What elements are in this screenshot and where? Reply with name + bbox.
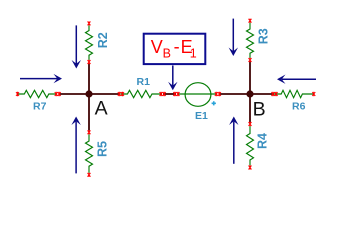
- svg-text:B: B: [253, 98, 266, 120]
- resistor R6: [271, 90, 315, 112]
- current arrow up through R4: [229, 117, 238, 164]
- svg-text:R3: R3: [256, 28, 270, 44]
- node A: [85, 90, 107, 119]
- svg-text:R7: R7: [33, 101, 47, 113]
- resistor R3: [247, 19, 271, 63]
- resistor R4: [247, 122, 270, 170]
- voltage source E1: [173, 83, 221, 122]
- resistor R7: [16, 90, 61, 112]
- node B: [246, 90, 265, 120]
- svg-text:B: B: [163, 46, 171, 60]
- wire B-R6: [250, 93, 274, 95]
- svg-text:E1: E1: [195, 110, 208, 122]
- wire R2-A-R5 vertical: [88, 64, 90, 131]
- wire E1-B: [220, 93, 251, 95]
- current arrow up through R5: [71, 117, 80, 174]
- resistor R2: [86, 21, 110, 64]
- resistor R5: [86, 130, 110, 177]
- current arrow down through R2: [72, 25, 81, 68]
- pointer arrow from box to wire: [168, 66, 177, 91]
- svg-text:R1: R1: [137, 76, 151, 88]
- svg-text:V: V: [151, 37, 163, 57]
- wire A-left (R7 to node A): [59, 93, 120, 95]
- resistor R1: [118, 76, 166, 98]
- plus polarity mark: [212, 101, 216, 105]
- svg-text:A: A: [95, 97, 108, 119]
- current arrow into A from left: [20, 74, 62, 83]
- current arrow down through R3: [229, 19, 238, 56]
- wire R3-B-R4 vertical: [249, 62, 251, 123]
- wire R1-E1: [163, 93, 176, 95]
- svg-text:R2: R2: [96, 32, 110, 48]
- svg-text:R6: R6: [292, 101, 306, 113]
- current arrow into B from right: [277, 75, 316, 84]
- svg-text:R4: R4: [256, 133, 270, 149]
- svg-text:1: 1: [190, 47, 197, 61]
- svg-text:-: -: [174, 37, 180, 57]
- svg-text:R5: R5: [95, 141, 109, 157]
- annotation box VB-E1: [144, 34, 206, 64]
